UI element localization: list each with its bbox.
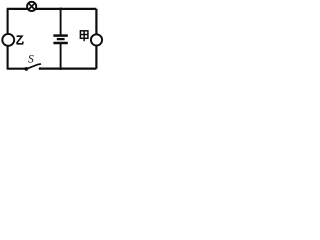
plate short middle [57,38,65,40]
wire: top rail [7,8,97,10]
label 甲 [80,31,88,41]
switch S [24,53,41,70]
wire: left vertical [7,9,9,69]
switch blade (open) [27,64,41,69]
label 乙 [17,36,24,44]
node: battery/top-rail junction [59,7,62,10]
svg-text:S: S [28,53,34,65]
wire: right vertical [95,9,97,69]
switch left terminal dot [24,67,28,71]
motor/bell 乙 (left circle component) [2,34,14,46]
node: battery/bottom-rail junction [59,67,62,70]
battery B (plates) [53,36,67,43]
wire: battery branch bottom stub [60,43,62,68]
wire: bottom rail right of switch [39,67,96,69]
switch right terminal dot [39,67,42,70]
lamp L (circle with X) on top rail [27,2,36,11]
wire: bottom rail left of switch [7,68,26,70]
wire: battery branch top stub [60,9,62,35]
background [0,0,107,76]
plate long bottom [53,42,67,45]
plate long top [53,34,67,37]
motor/bell 甲 (right circle component) [91,34,102,45]
